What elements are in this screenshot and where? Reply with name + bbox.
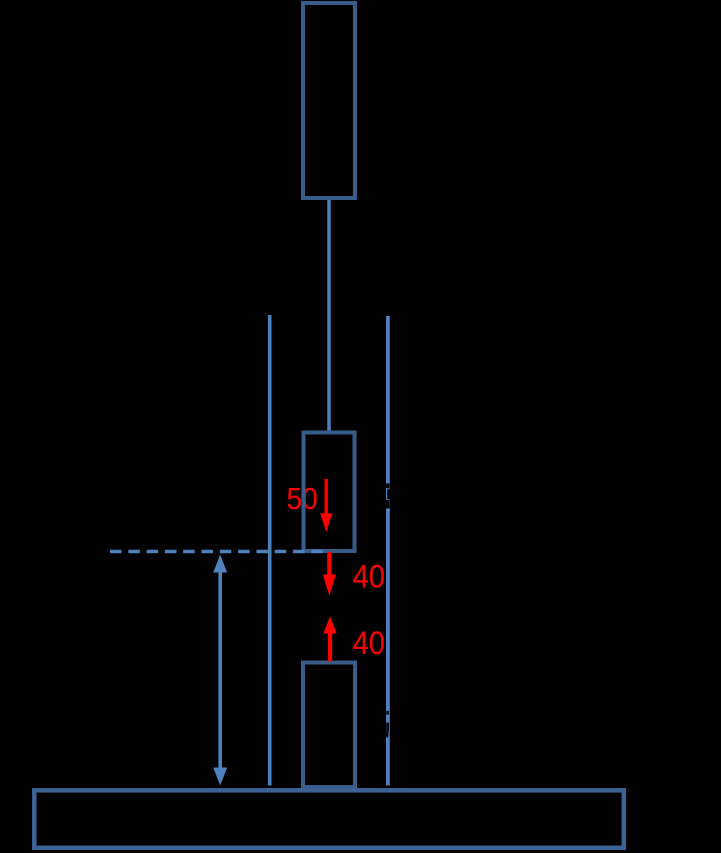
svg-text:40: 40 (353, 625, 385, 661)
svg-text:40: 40 (353, 559, 385, 595)
